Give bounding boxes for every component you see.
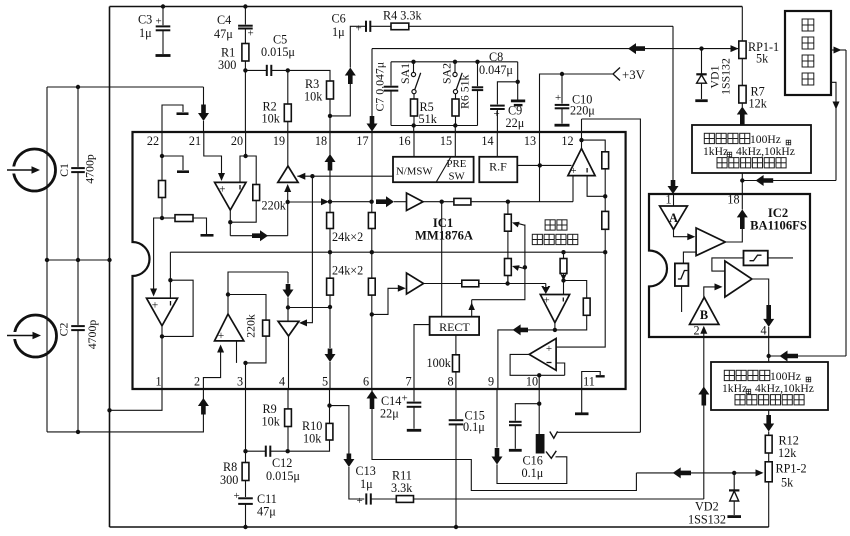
wire U1a output [229, 210, 231, 236]
resistor 220k feedback a [246, 156, 257, 185]
node buffer out [286, 200, 290, 204]
wire amp12 inv [587, 176, 605, 197]
wire U1g inv [563, 281, 565, 295]
capacitor C16 [515, 404, 539, 421]
svg-text:220k: 220k [244, 314, 258, 338]
node pot2 low [505, 281, 509, 285]
svg-text:+: + [357, 495, 363, 507]
node RF pin13 [538, 163, 542, 167]
amp A [660, 206, 688, 229]
node R6 bottom [453, 123, 457, 127]
op-amp U1d [215, 314, 244, 341]
node mic line C1 [76, 85, 80, 89]
capacitor C10 [561, 74, 563, 104]
wire right riser to pin4 [769, 355, 846, 357]
wire tone-control line [372, 48, 739, 50]
node pin4 chain [286, 305, 290, 309]
capacitor C8 [477, 62, 479, 86]
feedback U1g [564, 281, 587, 299]
wiper arrows AGC [512, 222, 520, 228]
wire pin9 external [496, 389, 498, 448]
node C10 [560, 72, 564, 76]
wire pin12 internal [581, 119, 583, 149]
svg-text:24k×2: 24k×2 [332, 230, 363, 244]
resistor 24k chain17 b [371, 252, 373, 278]
svg-text:0.047μ: 0.047μ [479, 63, 513, 77]
resistor R9 [287, 389, 289, 409]
svg-text:+: + [248, 28, 254, 40]
bar pin22 top [177, 112, 189, 115]
jack contact upper [550, 431, 558, 438]
block RECT [430, 317, 480, 335]
wire chain18 to pin5 [329, 307, 331, 348]
node pin20 [243, 154, 247, 158]
svg-text:6: 6 [363, 375, 369, 389]
svg-text:4700p: 4700p [85, 320, 99, 350]
pot AGC c [563, 252, 565, 258]
terminal +3V [613, 68, 620, 81]
arrow up on C6 riser [345, 68, 356, 85]
pot AGC b [505, 259, 512, 276]
node C12 R9 R10 [286, 449, 290, 453]
resistor 24k chain18 a [329, 202, 331, 213]
svg-text:100Hz: 100Hz [750, 133, 781, 146]
resistor after U1b [423, 201, 454, 203]
wire IC2 pin2 external [703, 337, 705, 499]
capacitor C1 [77, 87, 79, 167]
label radio circuit [802, 19, 814, 31]
wire op3 out riser [228, 272, 288, 314]
svg-text:4700p: 4700p [83, 154, 97, 184]
capacitor C12 [246, 450, 266, 452]
mic source 1 [14, 149, 56, 191]
wire IC2 pin4 external [768, 337, 770, 362]
svg-text:17: 17 [356, 134, 368, 148]
wire mic line upper [47, 86, 204, 88]
wire R3 to C6 riser [330, 84, 350, 116]
svg-text:+: + [152, 300, 159, 312]
wire x313 drop [307, 176, 313, 323]
wire pin14 internal [496, 132, 498, 157]
wire top supply rail [110, 6, 743, 8]
wire pin11 ground stub [581, 389, 583, 413]
wire U1e out pin1 [161, 326, 163, 389]
wire U1a out row [230, 235, 287, 237]
capacitor C2 [77, 260, 79, 325]
svg-text:16: 16 [398, 134, 410, 148]
svg-text:0.1μ: 0.1μ [522, 466, 544, 480]
wire RP1-2 to rail [768, 482, 770, 527]
svg-text:5k: 5k [781, 476, 794, 490]
node pin22 b [160, 216, 164, 220]
resistor R6 [455, 94, 457, 99]
capacitor C9 [497, 82, 517, 105]
potentiometer RP1-1 [739, 41, 746, 59]
wire pin12 branch [582, 140, 606, 152]
wire pin10 external [538, 389, 540, 404]
svg-text:R6 51k: R6 51k [458, 74, 472, 109]
arrow up pin6 [367, 391, 378, 410]
block RF [479, 157, 517, 182]
node U1g inv [561, 278, 565, 282]
svg-text:22μ: 22μ [506, 116, 525, 130]
node pin5 [327, 403, 331, 407]
switch SA1 [413, 62, 415, 73]
label tone control lower [724, 370, 734, 380]
svg-text:N/MSW: N/MSW [396, 166, 433, 178]
svg-text:R.F: R.F [489, 160, 507, 174]
ground C10 [555, 124, 570, 127]
amp U1b [407, 193, 424, 211]
ground C3 [156, 54, 171, 57]
svg-text:BA1106FS: BA1106FS [750, 219, 807, 233]
capacitor C5 [245, 69, 266, 71]
node R3 bottom / pin18 [328, 114, 332, 118]
wire pin4 to chain18 [288, 307, 330, 309]
wire pin19 internal [287, 132, 289, 166]
node chain18 x202 [328, 200, 332, 204]
node bus x563 [561, 250, 565, 254]
wire to opamp2 + [154, 218, 162, 292]
wire pin21 drop [203, 87, 205, 105]
potentiometer RP1-2 [768, 453, 770, 462]
resistor R11 [371, 498, 397, 500]
svg-text:VD2: VD2 [695, 500, 719, 514]
op-amp U1a [215, 182, 246, 210]
svg-text:1SS132: 1SS132 [719, 58, 733, 95]
node chain17 x202 [369, 200, 373, 204]
node bus x605 [603, 250, 607, 254]
svg-text:4kHz,10kHz: 4kHz,10kHz [736, 145, 795, 158]
svg-text:+: + [543, 295, 549, 307]
svg-text:B: B [700, 308, 708, 322]
pot AGC a [507, 202, 509, 215]
ground filter network [517, 82, 519, 100]
mic source 2 [15, 315, 57, 357]
resistor amp12 fb b [604, 196, 606, 211]
svg-text:RECT: RECT [439, 320, 470, 334]
wire pin13 external [540, 74, 614, 132]
svg-text:+: + [219, 184, 226, 196]
limiter block left [675, 263, 689, 286]
resistor R8 [245, 451, 247, 462]
node x605 fb [603, 194, 607, 198]
arrow R7 to tone box [741, 103, 743, 107]
capacitor C4 [244, 7, 246, 25]
svg-text:A: A [669, 211, 678, 225]
resistor R2 [287, 70, 289, 104]
feedback loop U1e [162, 280, 193, 336]
node bus18 [328, 250, 332, 254]
svg-text:1: 1 [665, 193, 671, 207]
node tone box / IC2 pin18 [740, 178, 744, 182]
svg-text:4kHz,10kHz: 4kHz,10kHz [755, 382, 814, 395]
IC2 outline [649, 194, 810, 337]
svg-text:2: 2 [693, 324, 699, 338]
wire tone box to IC2 pin18 [741, 173, 743, 194]
node rect tap [440, 200, 444, 204]
svg-text:24k×2: 24k×2 [332, 264, 363, 278]
wire U1h inv [556, 363, 565, 375]
svg-text:47μ: 47μ [257, 505, 276, 519]
svg-text:10: 10 [526, 375, 538, 389]
arrow into U1g [545, 284, 547, 288]
switch SA2 [454, 62, 456, 73]
svg-text:+: + [555, 92, 561, 104]
wire pin3 external [245, 389, 247, 451]
wire IC2 pin1 internal [673, 194, 675, 206]
svg-text:MM1876A: MM1876A [415, 229, 473, 243]
feedback 220k b [228, 295, 266, 321]
wire bottom ground rail [110, 526, 769, 528]
node pin3 R8 [243, 449, 247, 453]
arrow into RP1-1 wiper [731, 45, 739, 52]
node chain17 low [370, 312, 374, 316]
svg-text:+: + [234, 490, 240, 502]
wire stub internal bar [162, 156, 183, 170]
svg-text:C13: C13 [356, 464, 376, 478]
wire pin21 internal [204, 132, 222, 174]
wire pin10 internal [538, 375, 540, 389]
svg-text:7: 7 [405, 375, 411, 389]
wire pin17 riser [371, 49, 373, 132]
svg-text:12k: 12k [778, 446, 797, 460]
wire wiper bus [472, 225, 525, 300]
wire RECT to pin7 [414, 325, 430, 389]
wire pot riser to amp12 [572, 165, 574, 201]
svg-text:12k: 12k [749, 97, 768, 111]
node common a [45, 258, 49, 262]
capacitor C3 [162, 7, 164, 26]
filter box bottom edge [391, 125, 478, 127]
svg-text:+: + [156, 16, 162, 28]
filter box top edge [391, 61, 518, 63]
wire limiter top feed [712, 258, 744, 271]
wire IC2 second out [752, 279, 769, 305]
node pin2 C2 [76, 430, 80, 434]
wire to tone box node [742, 180, 836, 182]
resistor R3 [327, 81, 334, 99]
wire pot2 to row [507, 276, 509, 284]
svg-text:RP1-2: RP1-2 [776, 462, 807, 476]
svg-text:C12: C12 [272, 456, 292, 470]
wire right riser [845, 50, 847, 356]
wire top rail to RP1-1 [741, 7, 743, 42]
wire pin1 external [110, 389, 163, 410]
node C5/R2/R3 [286, 68, 290, 72]
wire pin16 external [413, 126, 415, 133]
bar pin11 internal [596, 375, 605, 377]
wire pin4 chain top [287, 272, 289, 284]
svg-text:11: 11 [583, 375, 595, 389]
node U1e out [160, 334, 164, 338]
wire pin22 stub above [162, 105, 183, 132]
wire riser to buffer [287, 190, 289, 236]
node pin4 link [767, 354, 771, 358]
wire jack to pin12 loop [558, 431, 641, 433]
arrow down C13 branch [343, 454, 354, 468]
wire wiper line RP1-2 [636, 472, 762, 474]
wire pin20 external [244, 70, 246, 132]
wire IC2 pin4 internal [768, 327, 770, 337]
wire IC2 main out [725, 229, 742, 242]
svg-text:22: 22 [147, 134, 159, 148]
node pin10 C16 [537, 402, 541, 406]
svg-text:+: + [546, 343, 552, 355]
wire VU out pin4 [288, 336, 290, 389]
amp U1f [407, 273, 424, 294]
amp IC2 main [696, 228, 725, 256]
diode VD1 [701, 49, 703, 74]
svg-text:10k: 10k [304, 90, 323, 104]
ground VD2 [727, 515, 741, 518]
svg-text:18: 18 [727, 193, 739, 207]
wire mid bus [170, 251, 605, 253]
svg-text:C4: C4 [217, 13, 231, 27]
capacitor C13 [349, 467, 364, 499]
svg-text:3.3k: 3.3k [391, 481, 413, 495]
wire C5 to R3 [288, 70, 330, 81]
label level adjust [545, 220, 555, 230]
wire IC2 pin2 internal [703, 332, 705, 337]
wire limiter to main amp [683, 252, 696, 263]
svg-text:C1: C1 [57, 163, 71, 177]
wire IC2 pin18 internal [741, 194, 743, 209]
svg-text:15: 15 [440, 134, 452, 148]
resistor pin22 chain [161, 156, 163, 181]
svg-text:19: 19 [273, 134, 285, 148]
buffer amp pin19 [278, 166, 298, 182]
svg-text:300: 300 [220, 473, 238, 487]
wire pin3 internal [245, 363, 247, 389]
earphone jack body [538, 404, 540, 434]
node U1g out [553, 328, 557, 332]
resistor 24k chain18 b [329, 252, 331, 278]
radio circuit box [785, 11, 831, 95]
resistor amp12 fb a [602, 152, 609, 169]
node chain18 low [328, 305, 332, 309]
arrow left on tone line [628, 43, 645, 54]
svg-text:SA2: SA2 [440, 63, 454, 84]
node SA1 top [411, 60, 415, 64]
svg-text:300: 300 [218, 58, 236, 72]
wire pin20 to inv input [240, 156, 246, 182]
node pin3 fb [243, 361, 247, 365]
svg-text:100k: 100k [427, 356, 452, 370]
svg-text:C3: C3 [138, 13, 152, 27]
svg-text:1: 1 [155, 375, 161, 389]
resistor R12 [765, 435, 772, 453]
wire radio lower stub [831, 82, 836, 180]
ground C14 [407, 429, 421, 432]
wire mic riser [46, 87, 48, 432]
resistor 100k [455, 335, 457, 355]
node C11 ground [243, 525, 247, 529]
block N-MSW PRE-SW [393, 157, 474, 182]
svg-text:5: 5 [322, 375, 328, 389]
svg-text:1kHz: 1kHz [722, 382, 747, 395]
svg-text:14: 14 [481, 134, 493, 148]
arrow into IC2 pin1 [668, 180, 679, 194]
node pin1 border [107, 408, 111, 412]
node pin10 tap [537, 373, 541, 377]
svg-text:22μ: 22μ [380, 407, 399, 421]
wire pin12 loop right [582, 119, 641, 432]
node U1a out [228, 220, 232, 224]
arrow down IC2 pin4 [763, 305, 774, 327]
node tone line / VD1 [699, 46, 703, 50]
wire pin17 internal [371, 132, 373, 202]
wire pin2 external [47, 389, 203, 432]
wire U1g out [554, 323, 556, 330]
arrow into pin21 [198, 105, 209, 122]
arrow into RECT [471, 300, 473, 317]
wire pin6 jog [372, 288, 399, 314]
bar pin22 internal [177, 170, 189, 173]
svg-text:2: 2 [194, 375, 200, 389]
svg-text:+: + [494, 108, 500, 120]
svg-text:12: 12 [561, 134, 573, 148]
svg-text:R4 3.3k: R4 3.3k [383, 9, 423, 23]
wire pin18 internal [329, 132, 331, 202]
wire pin13 internal [539, 132, 541, 202]
svg-text:SW: SW [449, 171, 466, 183]
wire buffer right row [297, 173, 305, 180]
capacitor C14 [413, 389, 415, 401]
node C8 top [475, 60, 479, 64]
resistor R4 [391, 23, 409, 30]
wire U1g out row [498, 330, 555, 389]
node R5 bottom [412, 123, 416, 127]
IC1 outline [133, 132, 626, 389]
jack contact lower [546, 451, 556, 459]
svg-text:47μ: 47μ [214, 27, 233, 41]
wire left border rail [109, 7, 111, 528]
wire pin11 internal [582, 372, 601, 390]
arrow up IC2 pin2 ext [698, 387, 709, 406]
svg-text:1SS132: 1SS132 [688, 513, 726, 527]
node top rail / C4 [243, 4, 247, 8]
arrow tone box to R12 [768, 410, 770, 415]
wire IC2 pin1 drop [672, 26, 674, 181]
node SA2 top [453, 60, 457, 64]
amp B [690, 297, 719, 324]
svg-text:+: + [218, 330, 225, 342]
op-amp U1c pin12 [568, 149, 595, 176]
node C15 ground [454, 525, 458, 529]
svg-text:+3V: +3V [622, 68, 646, 82]
resistor R1 [244, 29, 246, 44]
svg-text:21: 21 [189, 134, 201, 148]
wire pin15 internal [454, 132, 456, 157]
wire limiter top out [768, 257, 793, 259]
resistor R10 [329, 406, 331, 424]
wire pin20 internal [245, 132, 247, 156]
arrow to amp U1b [376, 196, 394, 207]
tone control box upper [692, 125, 811, 173]
wire limiter left stub [681, 286, 683, 312]
svg-text:C6: C6 [332, 12, 346, 26]
svg-text:0.1μ: 0.1μ [463, 420, 485, 434]
wire amp row to RECT [441, 202, 443, 317]
tone control box lower [711, 362, 828, 410]
arrow up IC2 pin18 [737, 209, 748, 229]
svg-text:20: 20 [231, 134, 243, 148]
wire inv riser U1e [169, 252, 171, 298]
wire VU top [287, 308, 289, 322]
node R1/C5/pin20 [243, 68, 247, 72]
amp VU pin4 [278, 321, 299, 336]
